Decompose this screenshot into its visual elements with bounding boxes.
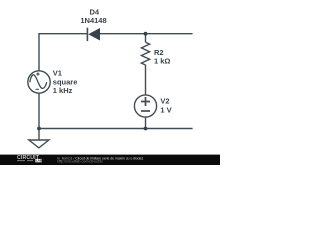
wire R2 branch top [145, 34, 147, 43]
node junction at ground [37, 127, 41, 131]
svg-text:V2: V2 [160, 97, 169, 106]
svg-text:1 kHz: 1 kHz [53, 86, 73, 95]
wire bottom rail [39, 128, 193, 130]
svg-text:V1: V1 [53, 69, 62, 78]
wire top left corner to diode [39, 33, 87, 35]
footer bar [0, 155, 220, 165]
resistor R2 [141, 42, 149, 65]
wire R2 to V2 [145, 65, 147, 96]
svg-text:square: square [53, 77, 78, 86]
wire diode to right end [100, 33, 193, 35]
diode D4 [87, 28, 100, 41]
footer logo LAB box [35, 159, 41, 162]
svg-text:D4: D4 [90, 7, 100, 16]
svg-text:1 kΩ: 1 kΩ [154, 57, 170, 66]
svg-text:LAB: LAB [36, 159, 43, 163]
node junction at R2 top [144, 32, 148, 36]
node junction at V2 bottom [144, 127, 148, 131]
svg-text:http://circuitlab.com/c6vu39c: http://circuitlab.com/c6vu39c [57, 159, 103, 163]
source V1 [28, 71, 50, 93]
footer logo traces [17, 160, 33, 162]
wire V2 bottom [145, 117, 147, 129]
svg-text:1 V: 1 V [160, 105, 171, 114]
wire left vertical V1 top [38, 33, 40, 71]
ground [29, 140, 49, 148]
wire V1 bottom to ground junction [38, 93, 40, 140]
svg-text:R2: R2 [154, 48, 164, 57]
source V2 [134, 95, 156, 117]
svg-text:1N4148: 1N4148 [80, 16, 106, 25]
